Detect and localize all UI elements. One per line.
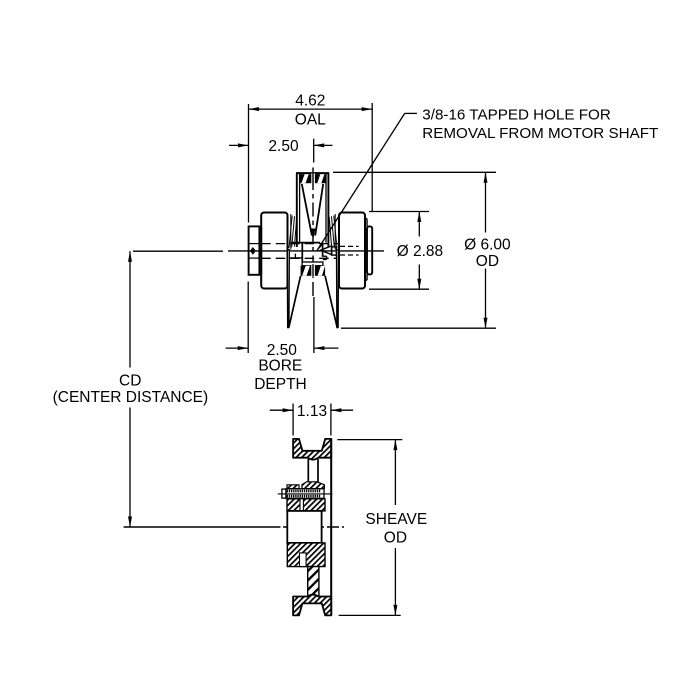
svg-text:BORE: BORE — [258, 357, 302, 374]
set screw (diamond) on left end cap — [251, 248, 255, 254]
V-groove right wall — [315, 184, 323, 236]
svg-text:Ø 2.88: Ø 2.88 — [397, 243, 444, 260]
retainer band between cap and left hub — [258, 227, 260, 275]
wire: sheave centerline (dash-dot) — [283, 526, 344, 528]
left hub (motor side) rounded body — [261, 213, 287, 289]
center block left wall — [301, 243, 303, 262]
hatched rim section (top band) — [300, 174, 326, 183]
extension line: sheave left face (1.13) — [292, 404, 294, 436]
svg-text:REMOVAL FROM MOTOR SHAFT: REMOVAL FROM MOTOR SHAFT — [422, 125, 658, 142]
svg-text:4.62: 4.62 — [295, 93, 325, 110]
lower groove wall (right, flange spread) — [325, 276, 337, 327]
right end cap — [367, 226, 372, 274]
wire: vertical centerline of V-groove (dash-dot) — [312, 168, 314, 297]
svg-text:DEPTH: DEPTH — [254, 376, 307, 393]
hidden line: motor shaft bore (lower) — [261, 257, 340, 259]
spring coils right of rim — [334, 216, 337, 249]
spring coils left of rim — [289, 216, 292, 249]
hatched rim section (bottom band) — [301, 266, 326, 276]
hidden line: motor shaft bore (upper) — [261, 243, 340, 245]
extension line: sheave right face (1.13) — [330, 404, 332, 436]
extension lines: sheave OD — [337, 439, 402, 441]
pulley rim top edge — [296, 172, 329, 174]
pulley rim outer flange walls — [296, 173, 298, 247]
step detail right of center block — [322, 255, 327, 257]
svg-text:OD: OD — [384, 530, 407, 547]
V-groove filled tip — [311, 229, 314, 238]
extension line: lower sheave centerline (left) — [124, 526, 281, 528]
web collar above adjusting bolt — [287, 485, 299, 489]
sleeve edge right — [334, 214, 336, 250]
center block top edge — [291, 242, 320, 244]
spacer plate below center — [302, 262, 323, 266]
lower groove wall (left, flange spread) — [289, 276, 301, 327]
sheave rim right face (full height) — [330, 439, 332, 616]
bushing flange hatched (upper) — [287, 499, 325, 511]
svg-text:Ø 6.00: Ø 6.00 — [464, 237, 511, 254]
dimension 2.50 (top, end to groove center) — [229, 144, 249, 146]
sheave bore (white) — [287, 511, 321, 543]
sheave web (upper) — [307, 459, 309, 484]
leader: 3/8-16 tapped hole note — [405, 112, 417, 114]
sleeve edge left — [290, 214, 292, 250]
sheave web (lower, hatched) — [308, 567, 319, 597]
right flange leg of movable disc — [337, 250, 339, 328]
svg-text:OD: OD — [476, 253, 499, 270]
center block right wall — [322, 243, 324, 257]
dimension line dia 6.00 — [485, 172, 487, 232]
svg-text:3/8-16 TAPPED HOLE FOR: 3/8-16 TAPPED HOLE FOR — [422, 107, 611, 124]
adjusting bolt centerline — [278, 493, 333, 495]
svg-text:OAL: OAL — [295, 111, 326, 128]
dimension line 4.62 OAL — [249, 108, 373, 110]
adjusting bolt hex head — [282, 489, 286, 498]
svg-text:SHEAVE: SHEAVE — [365, 511, 427, 528]
wire: horizontal centerline of pulley assembly (axis) — [133, 250, 223, 252]
left flange leg of movable disc — [287, 250, 289, 328]
hidden line: tapped hole (lower) — [340, 254, 359, 256]
V-groove left wall — [302, 184, 312, 236]
right hub rounded body — [339, 213, 365, 289]
svg-text:(CENTER DISTANCE): (CENTER DISTANCE) — [53, 389, 209, 406]
extension line: right end (OAL) — [371, 103, 373, 212]
adjusting bolt threaded shank — [286, 489, 324, 499]
svg-text:CD: CD — [119, 372, 141, 389]
dimension line dia 2.88 — [418, 212, 420, 237]
svg-text:2.50: 2.50 — [268, 138, 299, 155]
left bearing end cap — [249, 226, 260, 274]
sheave rim hatched top band with groove — [293, 439, 331, 460]
hidden line: tapped hole (upper) — [340, 245, 359, 247]
dimension 1.13 face width — [270, 409, 293, 411]
svg-text:1.13: 1.13 — [297, 403, 327, 420]
right hub step flange — [365, 218, 367, 220]
dimension CD center distance — [129, 251, 131, 367]
extension lines: pulley OD 6.00 — [333, 171, 496, 173]
puller nut at cone — [332, 247, 337, 255]
tapped hole countersink cone — [321, 246, 332, 255]
bushing flange hatched (lower) — [287, 543, 325, 567]
sheave rim hatched bottom band with groove — [293, 595, 331, 616]
extension line: left end (OAL/2.50) — [248, 104, 250, 223]
dimension 2.50 bore depth — [226, 347, 249, 349]
step detail left of center block — [289, 257, 302, 259]
extension lines: hub OD 2.88 — [369, 211, 429, 213]
dimension line SHEAVE OD — [394, 440, 396, 505]
